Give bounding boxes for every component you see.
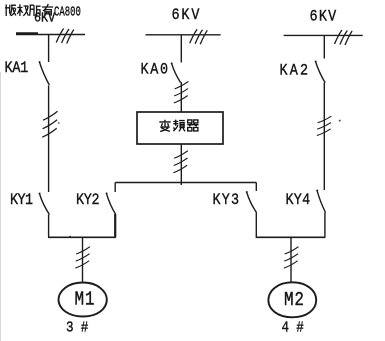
scan edge artifact [0, 72, 2, 341]
motor M1 [59, 283, 107, 317]
inverter box 变频器 [137, 112, 223, 144]
wire: drop to M2 [290, 237, 292, 282]
svg-text:M2: M2 [284, 290, 305, 312]
频 [173, 120, 185, 132]
bus 2 cable slashes [190, 29, 208, 44]
svg-text:KY3: KY3 [213, 192, 241, 209]
svg-text:4 #: 4 # [282, 320, 304, 337]
label M2 [284, 290, 305, 312]
switch KY2 blade [106, 193, 116, 214]
bus 1 thick segment [16, 32, 38, 35]
label KY3 [213, 192, 241, 209]
bus 1 (left, 6KV busbar) [16, 34, 85, 36]
label 6KV (middle bus) [172, 7, 202, 24]
bus 3 cable slashes [335, 30, 353, 45]
bus 3 (right, 6KV busbar) [284, 34, 363, 36]
svg-text:6KV: 6KV [310, 9, 338, 26]
权 [17, 4, 28, 16]
wire: T-split line [115, 182, 256, 184]
switch KY1 blade [39, 193, 50, 214]
junction dot on left joiner [69, 236, 71, 238]
wire: KY4 to joiner [324, 213, 326, 238]
watermark CA800 [54, 4, 81, 21]
cable slashes (inverter input) [174, 81, 189, 102]
bus 2 (middle, 6KV busbar) [146, 34, 221, 36]
label KA2 [280, 63, 311, 80]
label 3# [66, 320, 88, 337]
switch KY4 blade [316, 190, 325, 212]
wire: KA0 to box [180, 82, 182, 112]
cable slashes (M2 feeder) [284, 247, 299, 268]
wire: bus2 drop [180, 35, 182, 62]
svg-text:KA1: KA1 [5, 60, 29, 77]
版 [5, 5, 16, 17]
bus 1 cable slashes [56, 29, 74, 44]
cable slashes (right feeder) [317, 116, 332, 135]
svg-text:KY2: KY2 [76, 192, 99, 209]
switch KA1 blade [39, 62, 50, 85]
speck artifact left feeder [58, 122, 60, 124]
svg-text:CA800: CA800 [54, 4, 81, 21]
wire: left joiner [48, 236, 116, 238]
switch KA0 blade [171, 63, 181, 82]
label 6KV (right bus) [310, 9, 338, 26]
svg-text:M1: M1 [75, 289, 96, 311]
cable slashes (M1 feeder) [75, 247, 90, 268]
wire: KY2 stub from T-line [114, 183, 116, 193]
wire: KA2 down to KY4 [323, 83, 325, 191]
label KY1 [10, 192, 33, 209]
cable slashes (inverter output) [173, 151, 188, 173]
svg-text:KY4: KY4 [286, 192, 311, 209]
器 [187, 120, 198, 131]
wire: KY3 stub [255, 183, 257, 192]
watermark 版权所有 [5, 4, 53, 16]
label KY4 [286, 192, 311, 209]
switch KA2 blade [315, 61, 325, 82]
faded 6KV (left bus label under watermark) [34, 10, 55, 26]
wire: box to T-line [180, 144, 182, 185]
label KA0 [141, 62, 170, 79]
变 [159, 120, 170, 132]
switch KY3 blade [246, 192, 257, 213]
cable slashes (left feeder) [42, 111, 57, 137]
wire: KY3 to joiner [255, 213, 257, 238]
svg-text:KA2: KA2 [280, 63, 311, 80]
svg-text:KA0: KA0 [141, 62, 170, 79]
有 [42, 4, 53, 16]
label M1 [75, 289, 96, 311]
speck artifact right feeder [339, 120, 341, 122]
wire: drop to M1 [82, 237, 84, 283]
wire: KA1 to KY1 [48, 86, 50, 193]
svg-text:KY1: KY1 [10, 192, 33, 209]
wire: bus1 drop [48, 35, 50, 62]
所 [30, 5, 41, 16]
motor M2 [268, 282, 316, 317]
svg-text:3 #: 3 # [66, 320, 88, 337]
svg-text:6KV: 6KV [172, 7, 202, 24]
label KA1 [5, 60, 29, 77]
wire: KY1 to joiner [48, 215, 50, 238]
wire: KY2 to joiner (thick) [114, 214, 116, 237]
wire: bus3 drop [323, 36, 325, 59]
wire: right joiner [256, 236, 326, 238]
label 4# [282, 320, 304, 337]
label KY2 [76, 192, 99, 209]
